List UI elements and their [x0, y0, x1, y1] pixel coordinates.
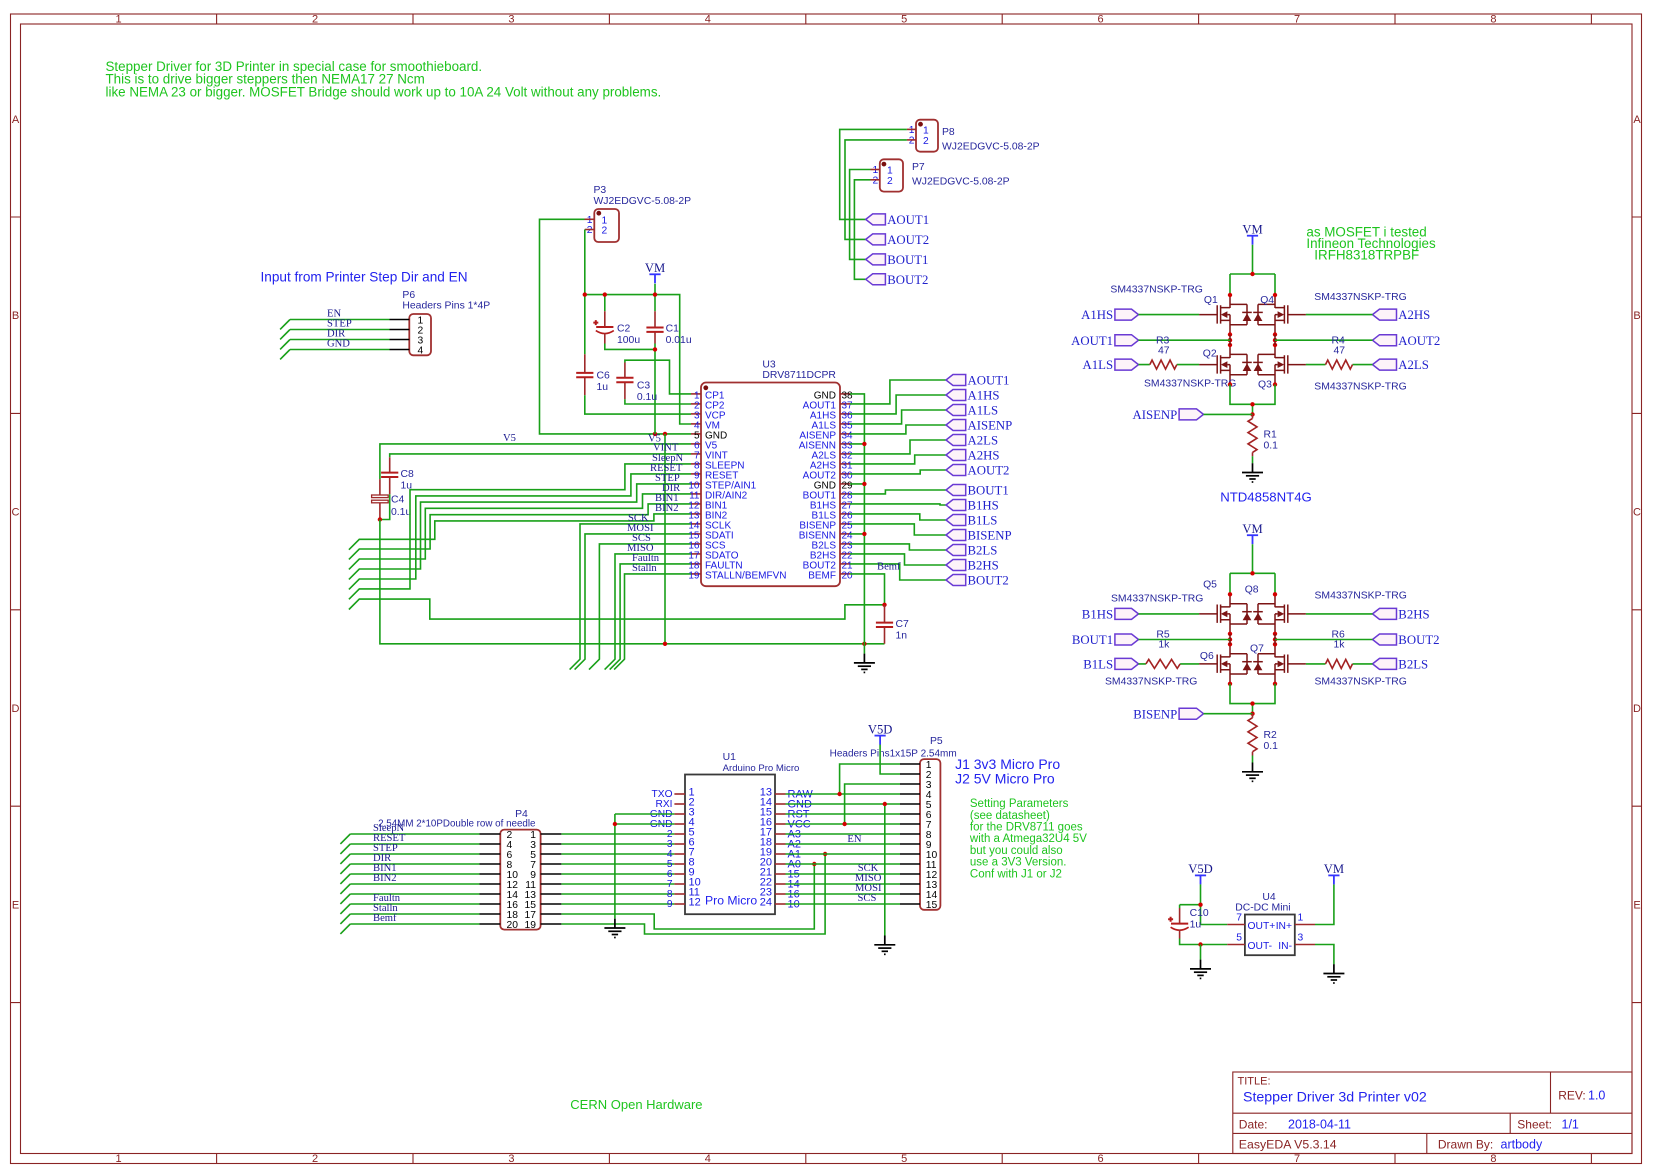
svg-text:Date:: Date:: [1239, 1117, 1268, 1131]
svg-text:Pro Micro: Pro Micro: [705, 894, 757, 908]
svg-text:1u: 1u: [1190, 920, 1202, 931]
pin 31 of U3: [810, 461, 853, 472]
wire V5D node: [1180, 884, 1228, 924]
svg-text:2: 2: [923, 136, 929, 147]
svg-text:2: 2: [587, 225, 593, 236]
pin 4 of P4: [480, 843, 501, 845]
capacitor C2 100u: [593, 320, 640, 346]
pin 17 of U3: [688, 551, 738, 562]
junction: [837, 792, 841, 796]
pin 14 of P5: [900, 893, 920, 895]
svg-text:47: 47: [1334, 346, 1346, 357]
wire A0 to P5.11: [786, 863, 901, 865]
svg-text:B2LS: B2LS: [1398, 658, 1428, 672]
pin 1 of P8: [907, 128, 916, 130]
pin 20 of P4: [480, 923, 501, 925]
pin 3 of P5: [900, 783, 920, 785]
wire: [340, 874, 479, 884]
pin 13 of U3: [688, 511, 727, 522]
pin 12 of U3: [688, 501, 727, 512]
svg-text:Q4: Q4: [1260, 295, 1274, 306]
wire: [561, 873, 674, 875]
svg-text:7: 7: [1294, 14, 1300, 26]
power flag VM: [645, 261, 665, 283]
net flag BOUT1: [946, 484, 1009, 498]
net flag A1LS: [946, 404, 998, 418]
wire A1LS: [850, 410, 946, 424]
wire: [561, 883, 674, 885]
wire B1LS to R5: [1139, 663, 1200, 665]
pin 2 of U1: [656, 797, 695, 811]
pin 4 of P6: [390, 349, 410, 351]
net flag A2LS: [946, 434, 998, 448]
ground: [1242, 463, 1263, 482]
pin 7 of U3: [691, 451, 728, 462]
svg-text:100u: 100u: [617, 335, 640, 346]
junction: [653, 347, 657, 351]
wire R2 to ground: [1252, 756, 1254, 763]
pin 13 of P5: [900, 883, 920, 885]
wire SCS: [589, 544, 691, 670]
wire BOUT1 to P7.1: [850, 170, 871, 260]
wire: [340, 884, 479, 894]
svg-text:2: 2: [312, 1153, 318, 1165]
power flag VM bridge B: [1242, 522, 1262, 544]
wire SleepN: [349, 464, 691, 599]
blue note J1/J2: [955, 756, 1060, 787]
svg-text:5: 5: [1236, 933, 1242, 944]
ground: [854, 654, 875, 673]
svg-text:Conf with J1 or J2: Conf with J1 or J2: [970, 868, 1062, 880]
svg-text:Setting Parameters: Setting Parameters: [970, 798, 1069, 810]
wire GND rail: [380, 520, 885, 644]
pin 30 of U3: [803, 471, 853, 482]
pin 24 of U3: [799, 531, 853, 542]
svg-text:Headers Pins 1*4P: Headers Pins 1*4P: [402, 301, 490, 312]
wire RAW to P5.4 and P5.1: [786, 764, 901, 794]
wire C10 top lead: [1179, 905, 1181, 908]
transistor Q8: [1253, 594, 1306, 634]
junction: [653, 432, 657, 436]
svg-text:SM4337NSKP-TRG: SM4337NSKP-TRG: [1144, 378, 1236, 389]
svg-text:C: C: [1633, 507, 1641, 519]
pin 3 of P6: [390, 339, 410, 341]
pin 8 of U1: [667, 857, 695, 871]
svg-text:STALLN/BEMFVN: STALLN/BEMFVN: [705, 571, 787, 582]
svg-text:U4: U4: [1262, 892, 1276, 903]
wire SCK: [570, 524, 691, 670]
svg-text:1: 1: [116, 1153, 122, 1165]
pin 10 of U3: [688, 481, 756, 492]
pin 25 of U3: [799, 521, 853, 532]
pin 9 of U3: [691, 471, 738, 482]
svg-text:1.0: 1.0: [1588, 1089, 1605, 1103]
wire A2LS: [850, 440, 946, 454]
pin 12 of P4: [480, 883, 501, 885]
net flag B1HS: [1082, 608, 1139, 622]
net flag B1LS: [1083, 658, 1138, 672]
wire 16/MOSI to P5.14: [786, 893, 901, 895]
ground: [1242, 763, 1263, 782]
svg-text:19: 19: [525, 920, 537, 931]
svg-text:with a Atmega32U4 5V: with a Atmega32U4 5V: [969, 833, 1087, 845]
svg-text:1: 1: [1298, 913, 1304, 924]
pin 18 of P4: [480, 913, 501, 915]
svg-text:B1LS: B1LS: [968, 514, 998, 528]
svg-text:Q2: Q2: [1203, 349, 1217, 360]
pin 15 of U3: [688, 531, 733, 542]
svg-text:C1: C1: [666, 323, 680, 334]
resistor R2 0.1: [1248, 718, 1278, 753]
ground: [604, 919, 625, 938]
wire B2HS: [850, 554, 946, 565]
wire AOUT2: [850, 470, 946, 474]
svg-text:E: E: [1633, 899, 1640, 911]
wire C1/C2 bottoms to GND wire: [605, 344, 655, 434]
pin 1 of U4: [1276, 913, 1315, 933]
svg-text:A: A: [1633, 114, 1641, 126]
pin 2 of P3: [585, 229, 595, 231]
wire DIR: [349, 494, 691, 570]
wire VM to bridge B rail: [1230, 544, 1275, 594]
wire RST to P5.6: [786, 813, 901, 815]
net flag AOUT2: [866, 233, 929, 247]
pin 15 of U1: [760, 807, 810, 821]
svg-text:3: 3: [1298, 933, 1304, 944]
pin 11 of P4: [541, 883, 562, 885]
wire: [280, 320, 389, 330]
svg-text:B1HS: B1HS: [968, 499, 999, 513]
net flag BOUT2: [1373, 633, 1440, 647]
svg-text:1k: 1k: [1334, 640, 1346, 651]
wire 14/MISO to P5.13: [786, 883, 901, 885]
wire B1LS: [850, 514, 946, 520]
wire V5 net U3.6: [380, 444, 691, 479]
net flag B2LS: [1373, 658, 1429, 672]
wire A3 to P5.8: [786, 833, 901, 835]
svg-text:Stepper Driver 3d Printer v02: Stepper Driver 3d Printer v02: [1243, 1090, 1427, 1106]
pin 1 of P4: [541, 833, 562, 835]
svg-text:AISENP: AISENP: [968, 419, 1013, 433]
pin 20 of U3: [808, 571, 853, 582]
svg-text:Drawn By:: Drawn By:: [1438, 1137, 1493, 1151]
svg-text:VM: VM: [1242, 223, 1262, 237]
net flag AOUT1: [866, 213, 929, 227]
svg-text:VM: VM: [1242, 522, 1262, 536]
pin 19 of P4: [541, 923, 562, 925]
svg-text:0.1u: 0.1u: [637, 392, 657, 403]
junction: [842, 822, 846, 826]
capacitor C10 1u: [1168, 908, 1209, 931]
transistor Q7: [1253, 644, 1306, 684]
pin 5 of U4: [1227, 933, 1272, 953]
connector P5: [830, 736, 957, 911]
wire sense rail bridge B: [1230, 684, 1275, 714]
wire: [340, 834, 479, 844]
pin 18 of U3: [688, 561, 742, 572]
wire C10 bottom to OUT-: [1180, 939, 1228, 945]
svg-text:C8: C8: [401, 469, 415, 480]
svg-text:A2HS: A2HS: [968, 449, 1000, 463]
pin 1 of P7: [871, 169, 880, 171]
svg-text:15: 15: [926, 900, 938, 911]
ground: [1323, 964, 1344, 983]
pin 5 of P5: [900, 803, 920, 805]
pin 38 of U3: [814, 391, 853, 402]
pin 4 of U1: [650, 817, 695, 831]
pin 8 of P5: [900, 833, 920, 835]
svg-text:20: 20: [507, 920, 519, 931]
pin 9 of U1: [667, 867, 695, 881]
wire B2LS: [850, 544, 946, 550]
svg-text:J2 5V Micro Pro: J2 5V Micro Pro: [955, 771, 1055, 787]
svg-text:V5: V5: [503, 433, 516, 444]
svg-text:1: 1: [909, 125, 915, 136]
pin 3 of U1: [650, 807, 695, 821]
wire R1 to ground: [1252, 456, 1254, 463]
wire MISO: [605, 554, 691, 670]
pin 29 of U3: [814, 481, 853, 492]
svg-text:2: 2: [887, 176, 893, 187]
net flag AISENP: [1133, 408, 1204, 422]
svg-text:BOUT2: BOUT2: [968, 574, 1009, 588]
wire B1HS to Q5 gate: [1139, 613, 1200, 615]
svg-text:V5D: V5D: [1188, 862, 1213, 876]
part labels SM4337NSKP-TRG: [1105, 591, 1407, 688]
capacitor C4 0.1u: [372, 495, 412, 518]
svg-text:C10: C10: [1190, 908, 1209, 919]
svg-text:4: 4: [418, 346, 424, 357]
svg-text:SM4337NSKP-TRG: SM4337NSKP-TRG: [1105, 677, 1197, 688]
svg-text:BOUT1: BOUT1: [968, 484, 1009, 498]
wire A1HS: [850, 395, 946, 414]
green note: MOSFET tested: [1306, 224, 1436, 262]
svg-text:AOUT1: AOUT1: [968, 374, 1010, 388]
junction: [883, 802, 887, 806]
svg-text:6: 6: [1098, 14, 1104, 26]
net flag B1LS: [946, 514, 997, 528]
pin 8 of U3: [691, 461, 744, 472]
wire BOUT1: [850, 490, 946, 494]
junction: [882, 603, 886, 607]
net flag B2LS: [946, 544, 997, 558]
pin 6 of U3: [691, 441, 718, 452]
wire: [340, 914, 479, 924]
wire AOUT1: [850, 380, 946, 404]
svg-text:C6: C6: [597, 370, 611, 381]
capacitor C6 1u: [576, 370, 610, 393]
svg-text:C7: C7: [896, 619, 910, 630]
svg-text:0.1u: 0.1u: [391, 507, 411, 518]
net flag BOUT2: [866, 273, 929, 287]
svg-text:2: 2: [872, 176, 878, 187]
svg-text:8: 8: [1490, 14, 1496, 26]
wire AOUT2 to P8.2: [845, 140, 907, 240]
green note: setting parameters: [969, 798, 1087, 880]
wire: [561, 843, 674, 845]
svg-text:4: 4: [705, 1153, 711, 1165]
svg-text:SM4337NSKP-TRG: SM4337NSKP-TRG: [1314, 292, 1406, 303]
wire BISENP: [1204, 713, 1253, 715]
net flag BISENP: [946, 529, 1012, 543]
wire Bemf from U3.20: [349, 574, 885, 619]
svg-text:Bemf: Bemf: [877, 562, 901, 573]
wire C3 bottom to U3.2 CP2: [625, 399, 691, 404]
pin 8 of P4: [480, 863, 501, 865]
svg-text:U1: U1: [723, 752, 737, 763]
svg-text:AOUT2: AOUT2: [887, 233, 929, 247]
pin 7 of P5: [900, 823, 920, 825]
svg-text:AISENP: AISENP: [1133, 408, 1178, 422]
transistor Q2: [1199, 345, 1252, 385]
wire GND riser to rail: [664, 434, 666, 644]
capacitor C1 0.01u: [646, 323, 691, 346]
svg-text:BIN2: BIN2: [373, 873, 397, 884]
svg-text:2: 2: [602, 226, 608, 237]
junction: [1198, 903, 1202, 907]
svg-text:Sheet:: Sheet:: [1517, 1117, 1552, 1131]
connector P4: [378, 809, 540, 931]
svg-text:DC-DC Mini: DC-DC Mini: [1235, 903, 1290, 914]
junction: [1198, 942, 1202, 946]
power flag V5D: [868, 722, 893, 744]
svg-text:R2: R2: [1264, 730, 1278, 741]
connector P6: [402, 290, 490, 357]
ground: [874, 936, 895, 955]
pin 27 of U3: [810, 501, 853, 512]
wire BIN2: [349, 514, 691, 550]
wire A2/EN to P5.9: [786, 843, 901, 845]
svg-text:SM4337NSKP-TRG: SM4337NSKP-TRG: [1314, 381, 1406, 392]
svg-text:B2HS: B2HS: [968, 559, 999, 573]
svg-text:SM4337NSKP-TRG: SM4337NSKP-TRG: [1110, 285, 1202, 296]
svg-text:BOUT2: BOUT2: [1398, 633, 1439, 647]
net flag AISENP: [946, 419, 1012, 433]
wire IN+ to VM: [1315, 884, 1334, 924]
pin 6 of P5: [900, 813, 920, 815]
wire Stalln to A0: [561, 864, 814, 929]
wire IN- to ground: [1315, 945, 1334, 965]
pin 13 of U1: [760, 787, 814, 801]
pin 34 of U3: [799, 431, 853, 442]
svg-text:P8: P8: [942, 127, 955, 138]
connector P3: [587, 185, 691, 242]
IC U1 Arduino Pro Micro: [685, 752, 799, 914]
svg-text:Input from Printer Step Dir an: Input from Printer Step Dir and EN: [261, 269, 468, 284]
wire BOUT2 to P7.2: [854, 180, 870, 279]
wire AISENP: [1204, 413, 1253, 415]
svg-text:7: 7: [1294, 1153, 1300, 1165]
wire 15/SCK to P5.12: [786, 873, 901, 875]
svg-text:use a 3V3 Version.: use a 3V3 Version.: [970, 857, 1067, 869]
wire RESET: [349, 474, 691, 590]
resistor R3 47: [1150, 335, 1177, 369]
wire GND from P3.1 to U3.5: [540, 219, 692, 434]
pin 1 of P5: [900, 763, 920, 765]
wire: [561, 893, 674, 895]
pin 5 of U3: [691, 431, 727, 442]
pin 14 of U3: [688, 521, 731, 532]
svg-text:Q6: Q6: [1200, 651, 1214, 662]
ground: [1190, 960, 1211, 979]
pin 15 of P4: [541, 903, 562, 905]
resistor R5 1k: [1146, 630, 1180, 669]
svg-text:6: 6: [1098, 1153, 1104, 1165]
pin 36 of U3: [810, 411, 853, 422]
wire C6 bottom to U3.3 VCP: [585, 395, 691, 414]
svg-text:WJ2EDGVC-5.08-2P: WJ2EDGVC-5.08-2P: [912, 176, 1010, 187]
svg-text:but you could also: but you could also: [970, 845, 1063, 857]
svg-text:7: 7: [1236, 913, 1242, 924]
wire: [340, 854, 479, 864]
wire Bemf to A1: [561, 854, 825, 934]
pin 22 of U1: [760, 877, 800, 891]
net flag B1HS: [946, 499, 999, 513]
capacitor C8 1u: [381, 469, 414, 492]
pin 32 of U3: [812, 451, 854, 462]
junction: [1250, 701, 1254, 705]
svg-text:C2: C2: [617, 323, 631, 334]
svg-text:Q7: Q7: [1250, 643, 1264, 654]
wire AISENP: [850, 425, 946, 434]
svg-text:12: 12: [689, 897, 701, 909]
pin 2 of P5: [900, 773, 920, 775]
wire: [280, 350, 389, 360]
svg-text:BOUT2: BOUT2: [887, 273, 928, 287]
svg-text:1/1: 1/1: [1562, 1117, 1579, 1131]
svg-text:VM: VM: [645, 261, 665, 275]
net flag BOUT1: [1072, 633, 1139, 647]
junction: [812, 862, 816, 866]
pin 2 of P4: [480, 833, 501, 835]
pin 15 of P5: [900, 903, 920, 905]
wire MOSI: [575, 534, 691, 670]
net flag AOUT1: [1071, 334, 1138, 348]
svg-text:2: 2: [312, 14, 318, 26]
svg-text:R1: R1: [1264, 430, 1278, 441]
pin 2 of P7: [871, 179, 880, 181]
pin 16 of P4: [480, 903, 501, 905]
svg-text:REV:: REV:: [1558, 1089, 1586, 1103]
svg-text:A: A: [12, 114, 20, 126]
wire Stalln: [614, 574, 691, 670]
wire B2HS to Q8 gate: [1306, 613, 1373, 615]
pin 1 of P6: [390, 319, 410, 321]
wire B1HS: [850, 504, 946, 505]
svg-text:5: 5: [901, 14, 907, 26]
svg-text:1: 1: [116, 14, 122, 26]
wire B2LS to R6: [1306, 663, 1373, 665]
net flag A1LS: [1083, 358, 1139, 372]
transistor Q5: [1199, 594, 1252, 634]
wire: [280, 330, 389, 340]
part labels SM4337NSKP-TRG: [1110, 285, 1406, 393]
wire C8 bottom to junction: [380, 494, 390, 519]
net flag B2HS: [946, 559, 999, 573]
wire: [561, 863, 674, 865]
transistor Q3: [1253, 345, 1306, 385]
svg-text:E: E: [12, 899, 19, 911]
svg-text:3: 3: [508, 14, 514, 26]
pin 22 of U3: [810, 551, 853, 562]
junction dots bridge B: [1228, 592, 1232, 596]
pin 19 of U3: [688, 571, 786, 582]
svg-text:CERN Open Hardware: CERN Open Hardware: [570, 1097, 702, 1112]
svg-text:(see datasheet): (see datasheet): [970, 810, 1050, 822]
svg-text:AOUT1: AOUT1: [1071, 334, 1113, 348]
transistor Q4: [1253, 295, 1306, 335]
svg-text:3: 3: [508, 1153, 514, 1165]
